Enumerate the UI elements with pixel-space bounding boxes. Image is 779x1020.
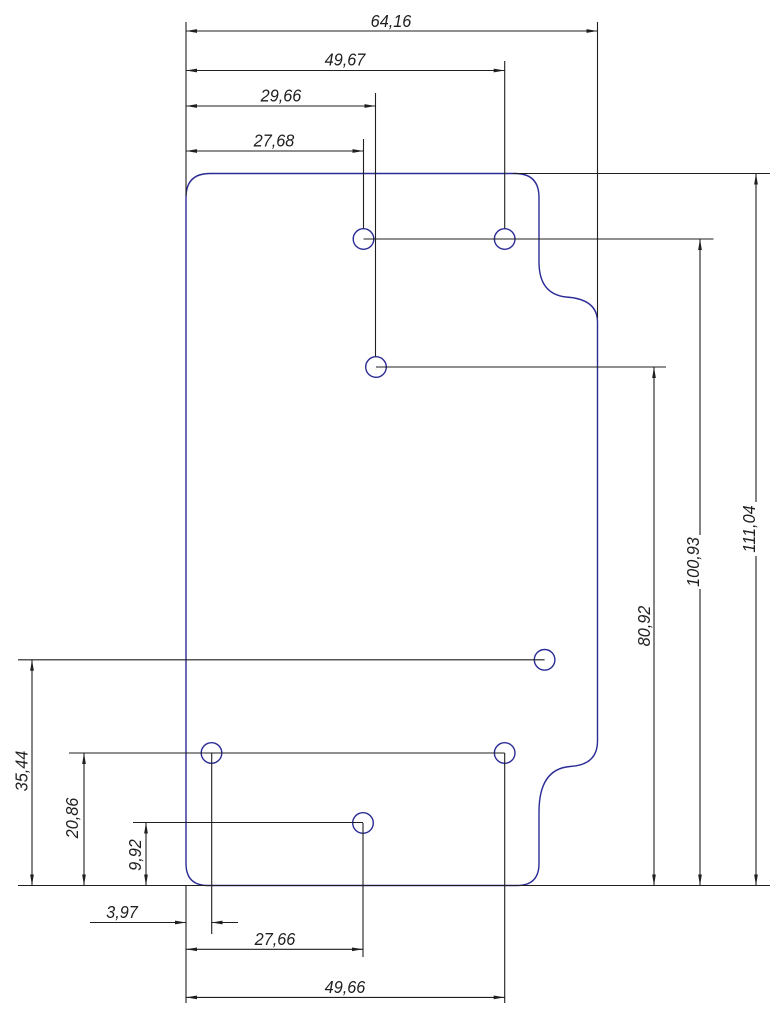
extension line y173 top edge [513, 173, 770, 175]
extension line y822 to H7 [133, 822, 363, 824]
svg-text:29,66: 29,66 [260, 86, 302, 106]
extension line x363 top [363, 139, 365, 229]
extension line x504 bottom [504, 753, 506, 1003]
dimension 3,97 left tail with arrow [90, 922, 186, 924]
extension line x504 top [504, 61, 506, 229]
dimension 64,16 line [186, 30, 598, 32]
extension line x363 bottom [362, 823, 364, 957]
svg-text:49,67: 49,67 [325, 50, 366, 70]
dimension 49,67 line [186, 70, 505, 72]
extension line x211 bottom [211, 753, 213, 934]
svg-text:27,68: 27,68 [253, 131, 295, 151]
dimension 29,66 line [186, 105, 376, 107]
dimension 80,92 line [653, 367, 655, 886]
extension line y660 through H4 [18, 659, 545, 661]
dimension 35,44 line [31, 660, 33, 886]
svg-text:9,92: 9,92 [125, 839, 145, 871]
dimension 3,97 right tail with arrow [212, 922, 238, 924]
hole H4 [534, 650, 555, 671]
dimension 27,66 line [186, 948, 363, 950]
svg-text:111,04: 111,04 [739, 505, 759, 552]
hole H2 [494, 229, 515, 250]
svg-text:35,44: 35,44 [12, 751, 32, 792]
extension line y753 through H5 H6 [69, 752, 505, 754]
svg-text:64,16: 64,16 [371, 11, 412, 31]
dimension 9,92 line [145, 823, 147, 886]
svg-text:3,97: 3,97 [106, 902, 138, 922]
hole H1 [353, 229, 374, 250]
dimension 111,04 line [755, 174, 757, 886]
dimension 27,68 line [186, 150, 364, 152]
extension line y885 bottom edge [18, 885, 770, 887]
hole H7 [353, 813, 374, 834]
plate outline [186, 174, 598, 886]
dimension 100,93 label gap [686, 535, 702, 589]
dimension 111,04 label gap [742, 502, 758, 556]
svg-text:20,86: 20,86 [62, 797, 82, 839]
hole H5 [201, 743, 222, 764]
extension line x375 [375, 93, 377, 357]
extension line y367 from H3 [376, 366, 666, 368]
extension line left x186 bottom [185, 886, 187, 1004]
svg-text:100,93: 100,93 [683, 537, 703, 587]
extension line left x186 top [185, 22, 187, 196]
svg-text:80,92: 80,92 [634, 605, 654, 646]
extension line y239 through H1 H2 [364, 238, 714, 240]
dimension 49,66 line [186, 996, 505, 998]
dimension 100,93 line [699, 239, 701, 886]
svg-text:49,66: 49,66 [325, 977, 366, 997]
hole H6 [494, 743, 515, 764]
svg-text:27,66: 27,66 [254, 929, 296, 949]
hole H3 [366, 357, 387, 378]
extension line x597 [597, 22, 599, 318]
dimension 20,86 line [83, 753, 85, 886]
